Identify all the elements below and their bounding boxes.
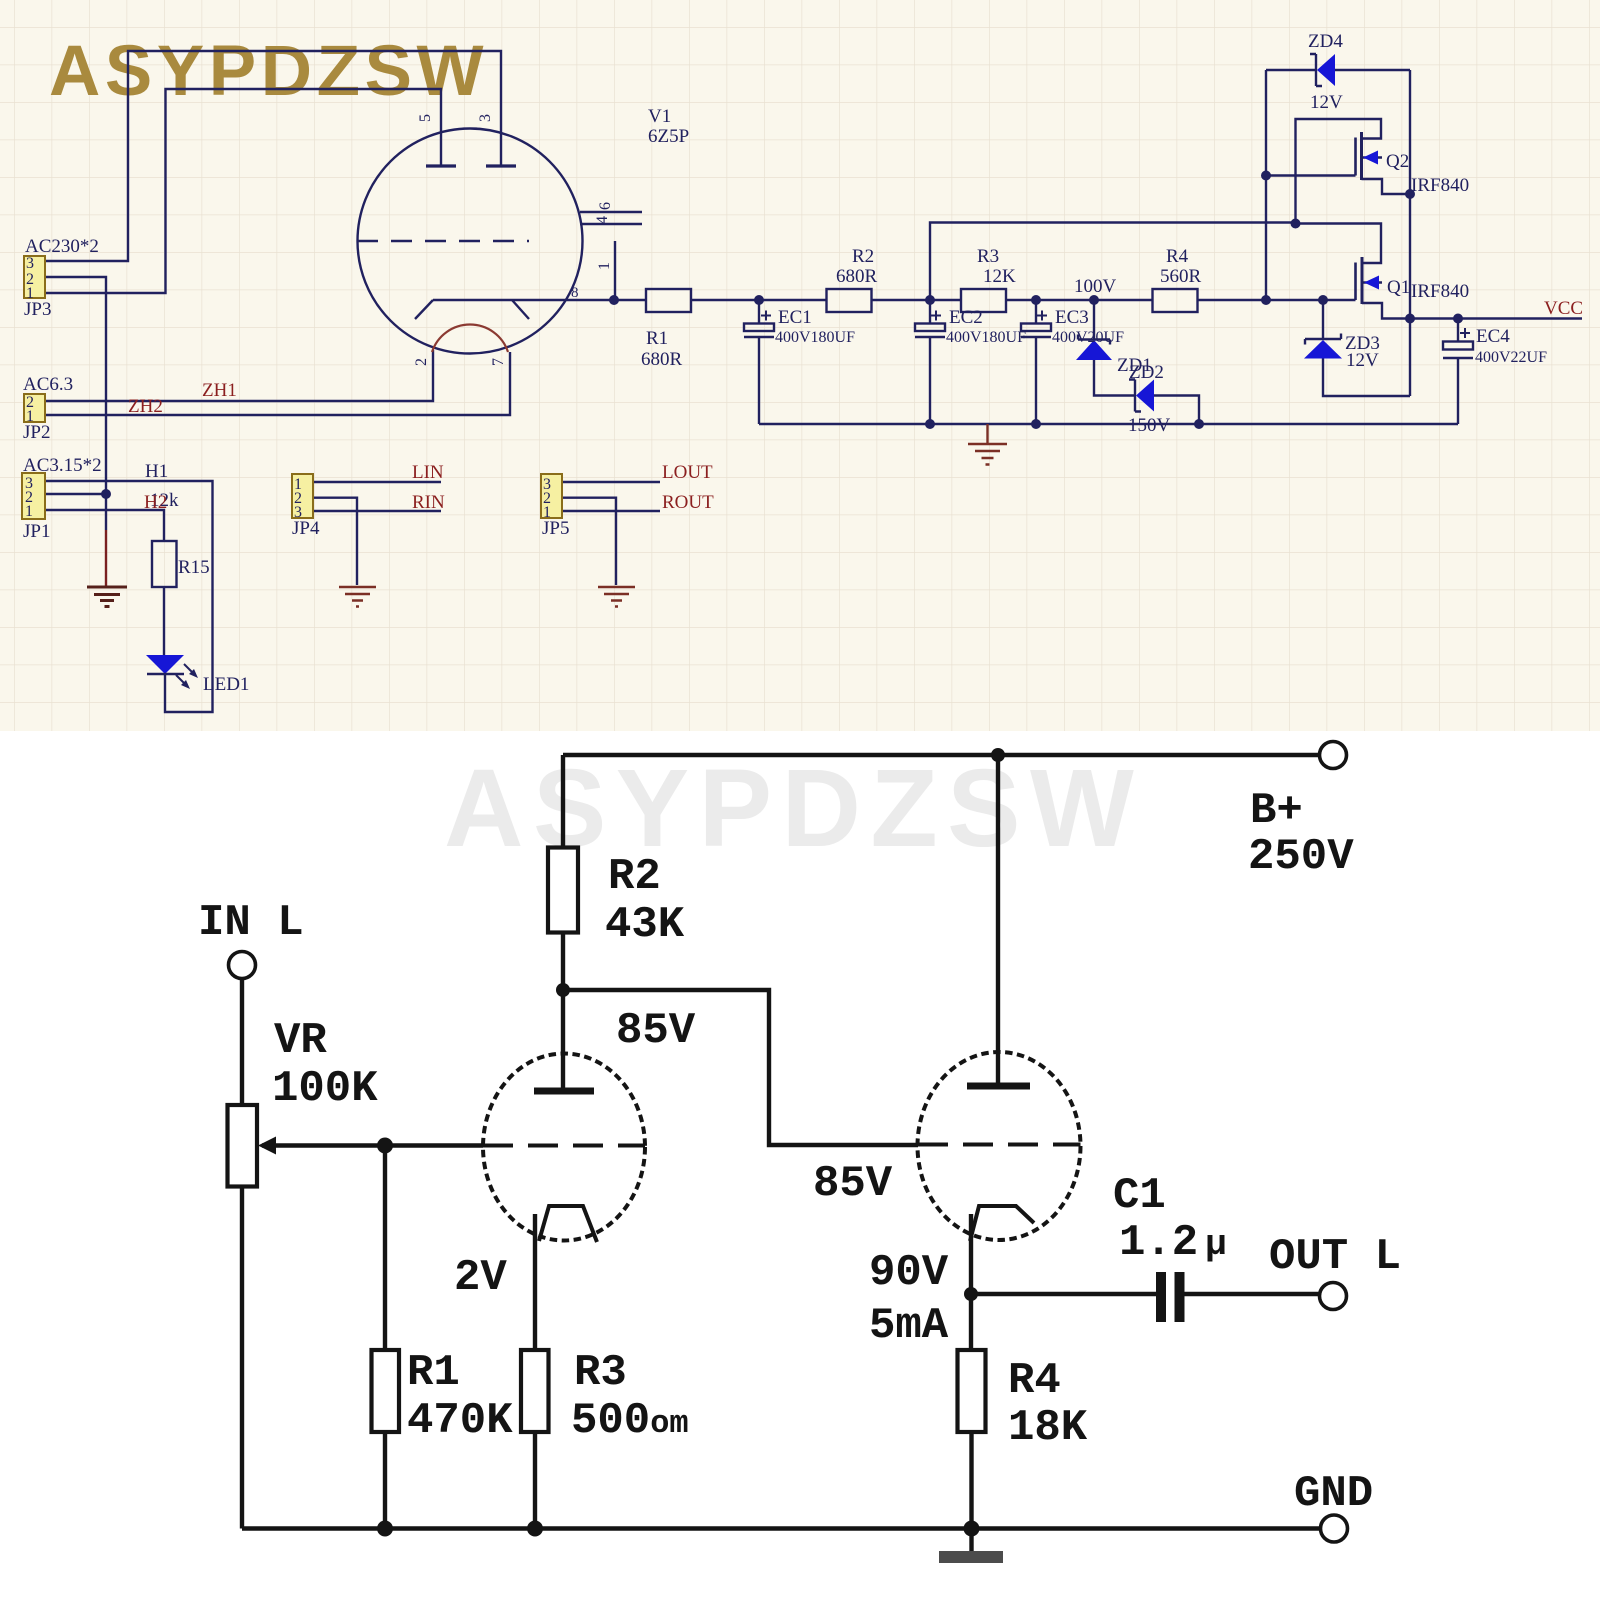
resistor R3	[521, 1350, 549, 1432]
svg-text:R15: R15	[178, 557, 210, 578]
svg-text:EC4: EC4	[1476, 326, 1510, 347]
svg-text:400V20UF: 400V20UF	[1052, 329, 1124, 346]
terminal IN L	[229, 952, 256, 979]
svg-text:8: 8	[571, 285, 579, 301]
svg-text:EC2: EC2	[949, 307, 983, 328]
tube1 grid dashed	[483, 1144, 645, 1148]
tube2 grid dashed	[918, 1143, 1081, 1147]
connector JP1	[22, 473, 45, 519]
svg-text:400V180UF: 400V180UF	[775, 329, 855, 346]
tube2 cathode tab	[970, 1206, 1034, 1241]
wire grid node to R1	[383, 1146, 387, 1351]
wire pin6 pin4 stubs	[580, 212, 642, 224]
VR wiper arrow	[262, 1143, 483, 1147]
svg-text:IN L: IN L	[198, 898, 304, 948]
wire JP3 pin3 to V1 plate pin3	[45, 51, 501, 261]
capacitor C1	[1156, 1272, 1166, 1322]
junction gate net rail	[1261, 295, 1271, 305]
resistor R2	[548, 848, 578, 933]
svg-text:3: 3	[26, 255, 34, 272]
connector JP4	[292, 474, 313, 518]
wire node to tube1 plate	[561, 990, 565, 1088]
svg-text:OUT L: OUT L	[1269, 1232, 1401, 1282]
wire upper tap rail	[930, 223, 1296, 301]
wire bottom rail GND	[242, 1526, 1320, 1530]
wire node to tube2 grid	[563, 990, 918, 1145]
svg-text:ZD2: ZD2	[1129, 362, 1164, 383]
junction R4 bottom	[964, 1521, 980, 1537]
svg-text:JP5: JP5	[542, 518, 569, 539]
svg-text:ROUT: ROUT	[662, 492, 714, 513]
svg-text:EC3: EC3	[1055, 307, 1089, 328]
svg-text:ZH1: ZH1	[202, 380, 237, 401]
wire Q2 gate	[1266, 174, 1356, 176]
wire gate node vertical	[1265, 70, 1267, 300]
svg-text:12V: 12V	[1346, 350, 1379, 371]
wire ZD1 to ZD2	[1094, 360, 1135, 396]
svg-text:150V: 150V	[1128, 415, 1171, 436]
wire right loop vertical	[1409, 70, 1411, 396]
capacitor EC2	[929, 300, 931, 424]
svg-text:R3: R3	[574, 1348, 627, 1398]
wire B+ rail to R2	[561, 755, 565, 848]
svg-text:2: 2	[413, 358, 430, 366]
wire B+ rail	[563, 753, 1320, 757]
svg-text:IRF840: IRF840	[1411, 175, 1469, 196]
zener ZD1	[1093, 300, 1095, 340]
junction V1 pin1	[609, 295, 619, 305]
svg-text:680R: 680R	[836, 266, 878, 287]
svg-text:400V22UF: 400V22UF	[1475, 349, 1547, 366]
wire R2 to node 85V	[561, 933, 565, 991]
ground symbol JP5	[598, 587, 635, 607]
svg-text:AC3.15*2: AC3.15*2	[23, 455, 102, 476]
junction EC2	[925, 295, 935, 305]
wire node 90V to R4	[969, 1294, 973, 1350]
svg-text:Q1: Q1	[1387, 277, 1410, 298]
zener ZD2	[1129, 380, 1141, 412]
capacitor EC3	[1035, 300, 1037, 424]
junction node 90V	[964, 1287, 978, 1301]
svg-text:560R: 560R	[1160, 266, 1202, 287]
wire R2 to R3	[872, 299, 962, 301]
wire ZH1 JP2 pin2 to V1 pin2	[45, 350, 433, 401]
junction JP1 pin2	[101, 489, 111, 499]
junction Q2 gate	[1261, 171, 1271, 181]
wire H1 JP1 pin3 to LED1 cathode loop	[45, 481, 213, 712]
tube1 cathode tab	[539, 1206, 597, 1242]
svg-text:JP4: JP4	[292, 518, 320, 539]
wire R15 to LED1 anode	[163, 587, 165, 655]
transistor Q1	[1354, 263, 1357, 301]
svg-text:R2: R2	[852, 246, 874, 267]
svg-text:43K: 43K	[605, 900, 685, 950]
connector JP5	[541, 474, 562, 518]
wire JP3 pin2 to ground	[45, 277, 106, 530]
wire VR bottom to bottom rail	[240, 1187, 244, 1529]
terminal B+	[1320, 742, 1347, 769]
svg-text:H2: H2	[144, 492, 167, 513]
svg-text:1: 1	[596, 262, 613, 270]
svg-text:LOUT: LOUT	[662, 462, 713, 483]
svg-text:470K: 470K	[407, 1396, 513, 1446]
junction node 85V	[556, 983, 570, 997]
wire JP1 pin1 to R15	[45, 510, 164, 541]
wire VCC rail	[1410, 317, 1582, 319]
resistor R1	[646, 289, 691, 312]
wire ZH2 JP2 pin1 to V1 pin7	[45, 352, 510, 415]
svg-text:680R: 680R	[641, 349, 683, 370]
wire R4 to Q1 gate	[1198, 299, 1356, 301]
wire JP3 pin1 to V1 plate pin5	[45, 89, 441, 293]
wire C1 to OUT L	[1185, 1292, 1320, 1296]
svg-text:ZD4: ZD4	[1308, 31, 1343, 52]
svg-text:B+: B+	[1250, 786, 1303, 836]
resistor R15	[152, 541, 177, 587]
resistor R3	[961, 289, 1006, 312]
ground symbol mid	[968, 424, 1007, 465]
terminal OUT L	[1320, 1283, 1347, 1310]
wire tube1 cathode to R3	[533, 1214, 537, 1350]
wire tube2 cathode to node 90V	[969, 1214, 973, 1294]
svg-text:VCC: VCC	[1544, 298, 1583, 319]
svg-text:7: 7	[490, 358, 507, 366]
wire JP1 pin2	[45, 493, 106, 495]
svg-text:EC1: EC1	[778, 307, 812, 328]
wire Q2 drain to Q1 drain	[1296, 224, 1382, 264]
tube V1 plate bar pin5	[426, 164, 456, 167]
svg-text:GND: GND	[1294, 1469, 1373, 1519]
junction Q2 source	[1405, 189, 1415, 199]
junction EC3 ground	[1031, 419, 1041, 429]
svg-text:4: 4	[594, 216, 611, 224]
top schematic background	[0, 0, 1600, 731]
svg-text:100V: 100V	[1074, 276, 1117, 297]
svg-text:400V180UF: 400V180UF	[946, 329, 1026, 346]
terminal GND	[1321, 1515, 1348, 1542]
tube V1 cathode symbol	[415, 300, 529, 319]
svg-text:90V: 90V	[869, 1248, 949, 1298]
tube2 envelope	[918, 1052, 1081, 1240]
capacitor EC4	[1457, 319, 1459, 425]
tube1 envelope	[483, 1054, 645, 1241]
svg-text:R3: R3	[977, 246, 999, 267]
svg-text:IRF840: IRF840	[1411, 281, 1469, 302]
ground symbol JP4	[339, 587, 376, 607]
junction ZD3	[1318, 295, 1328, 305]
junction Q2 drain	[1291, 219, 1301, 229]
wire R4 to bottom rail	[969, 1432, 973, 1529]
junction B+ plate	[991, 748, 1005, 762]
wire R3 to bottom rail	[533, 1432, 537, 1529]
wire R1 to R2	[691, 299, 827, 301]
transistor Q2	[1296, 119, 1382, 224]
junction ZD2 ground	[1194, 419, 1204, 429]
wire ZD2 to ground rail	[1154, 396, 1199, 425]
svg-text:V1: V1	[648, 106, 671, 127]
connector JP2	[24, 394, 45, 422]
wire IN L to VR	[240, 979, 244, 1106]
svg-text:ZH2: ZH2	[128, 396, 163, 417]
tube V1 plate bar pin3	[486, 164, 516, 167]
svg-text:3: 3	[477, 114, 494, 122]
junction EC2 ground	[925, 419, 935, 429]
svg-text:H1: H1	[145, 461, 168, 482]
wire R1 to bottom rail	[383, 1432, 387, 1529]
connector JP4 wires LIN RIN	[313, 482, 441, 585]
wire R3 to R4	[1006, 299, 1153, 301]
junction EC3	[1031, 295, 1041, 305]
svg-text:C1: C1	[1113, 1171, 1166, 1221]
svg-text:JP3: JP3	[24, 299, 51, 320]
junction EC1	[754, 295, 764, 305]
junction R1 bottom	[377, 1521, 393, 1537]
tube V1 heater arc	[432, 324, 508, 352]
wire ZD3 to VCC vertical	[1323, 359, 1410, 397]
svg-text:ASYPDZSW: ASYPDZSW	[49, 32, 488, 111]
tube1 plate bar	[534, 1088, 594, 1095]
svg-text:18K: 18K	[1008, 1403, 1088, 1453]
connector JP5 wires LOUT ROUT	[562, 482, 660, 585]
svg-text:JP1: JP1	[23, 521, 50, 542]
svg-text:100K: 100K	[272, 1064, 378, 1114]
svg-text:RIN: RIN	[412, 492, 445, 513]
tube2 plate bar	[967, 1083, 1030, 1090]
zener ZD4	[1266, 69, 1410, 71]
LED LED1	[146, 655, 184, 674]
svg-text:1.2µ: 1.2µ	[1119, 1218, 1227, 1268]
potentiometer VR	[228, 1105, 258, 1187]
svg-text:R2: R2	[608, 852, 661, 902]
tube V1 envelope	[358, 129, 583, 354]
ground symbol	[939, 1551, 1003, 1563]
svg-text:Q2: Q2	[1386, 151, 1409, 172]
svg-text:5mA: 5mA	[869, 1301, 949, 1351]
junction EC4	[1453, 314, 1463, 324]
connector JP3	[24, 256, 45, 298]
junction VCC node	[1405, 314, 1415, 324]
svg-text:JP2: JP2	[23, 422, 50, 443]
svg-text:6Z5P: 6Z5P	[648, 126, 689, 147]
ground symbol left	[87, 587, 127, 607]
svg-text:250V: 250V	[1248, 832, 1354, 882]
svg-text:85V: 85V	[616, 1006, 696, 1056]
svg-text:R1: R1	[407, 1348, 460, 1398]
svg-text:12V: 12V	[1310, 92, 1343, 113]
wire to ground bar	[969, 1529, 973, 1552]
resistor R2	[827, 289, 872, 312]
svg-text:R4: R4	[1008, 1356, 1061, 1406]
svg-text:85V: 85V	[813, 1159, 893, 1209]
wire main rail pin8 to R1	[433, 299, 646, 301]
svg-text:1: 1	[25, 503, 33, 520]
zener ZD3	[1322, 300, 1324, 340]
svg-text:R4: R4	[1166, 246, 1189, 267]
junction R3 bottom	[527, 1521, 543, 1537]
wire pin1 stub	[614, 241, 616, 300]
svg-text:6: 6	[597, 202, 614, 210]
svg-text:2V: 2V	[454, 1253, 507, 1303]
junction grid node	[377, 1138, 393, 1154]
svg-text:AC6.3: AC6.3	[23, 374, 73, 395]
svg-text:12K: 12K	[983, 266, 1016, 287]
wire ground rail	[759, 423, 1458, 425]
resistor R4	[1153, 289, 1198, 312]
wire B+ to tube2 plate	[996, 755, 1000, 1083]
resistor R1	[372, 1350, 400, 1432]
wire node 90V to C1	[971, 1292, 1156, 1296]
junction ZD1	[1089, 295, 1099, 305]
svg-text:R1: R1	[646, 328, 668, 349]
svg-text:AC230*2: AC230*2	[25, 236, 99, 257]
svg-text:VR: VR	[274, 1016, 327, 1066]
resistor R4	[958, 1350, 986, 1432]
capacitor EC1	[758, 300, 760, 424]
svg-text:LED1: LED1	[203, 674, 249, 695]
tube V1 internal dashed line	[357, 240, 529, 242]
svg-text:LIN: LIN	[412, 462, 444, 483]
svg-text:5: 5	[417, 114, 434, 122]
